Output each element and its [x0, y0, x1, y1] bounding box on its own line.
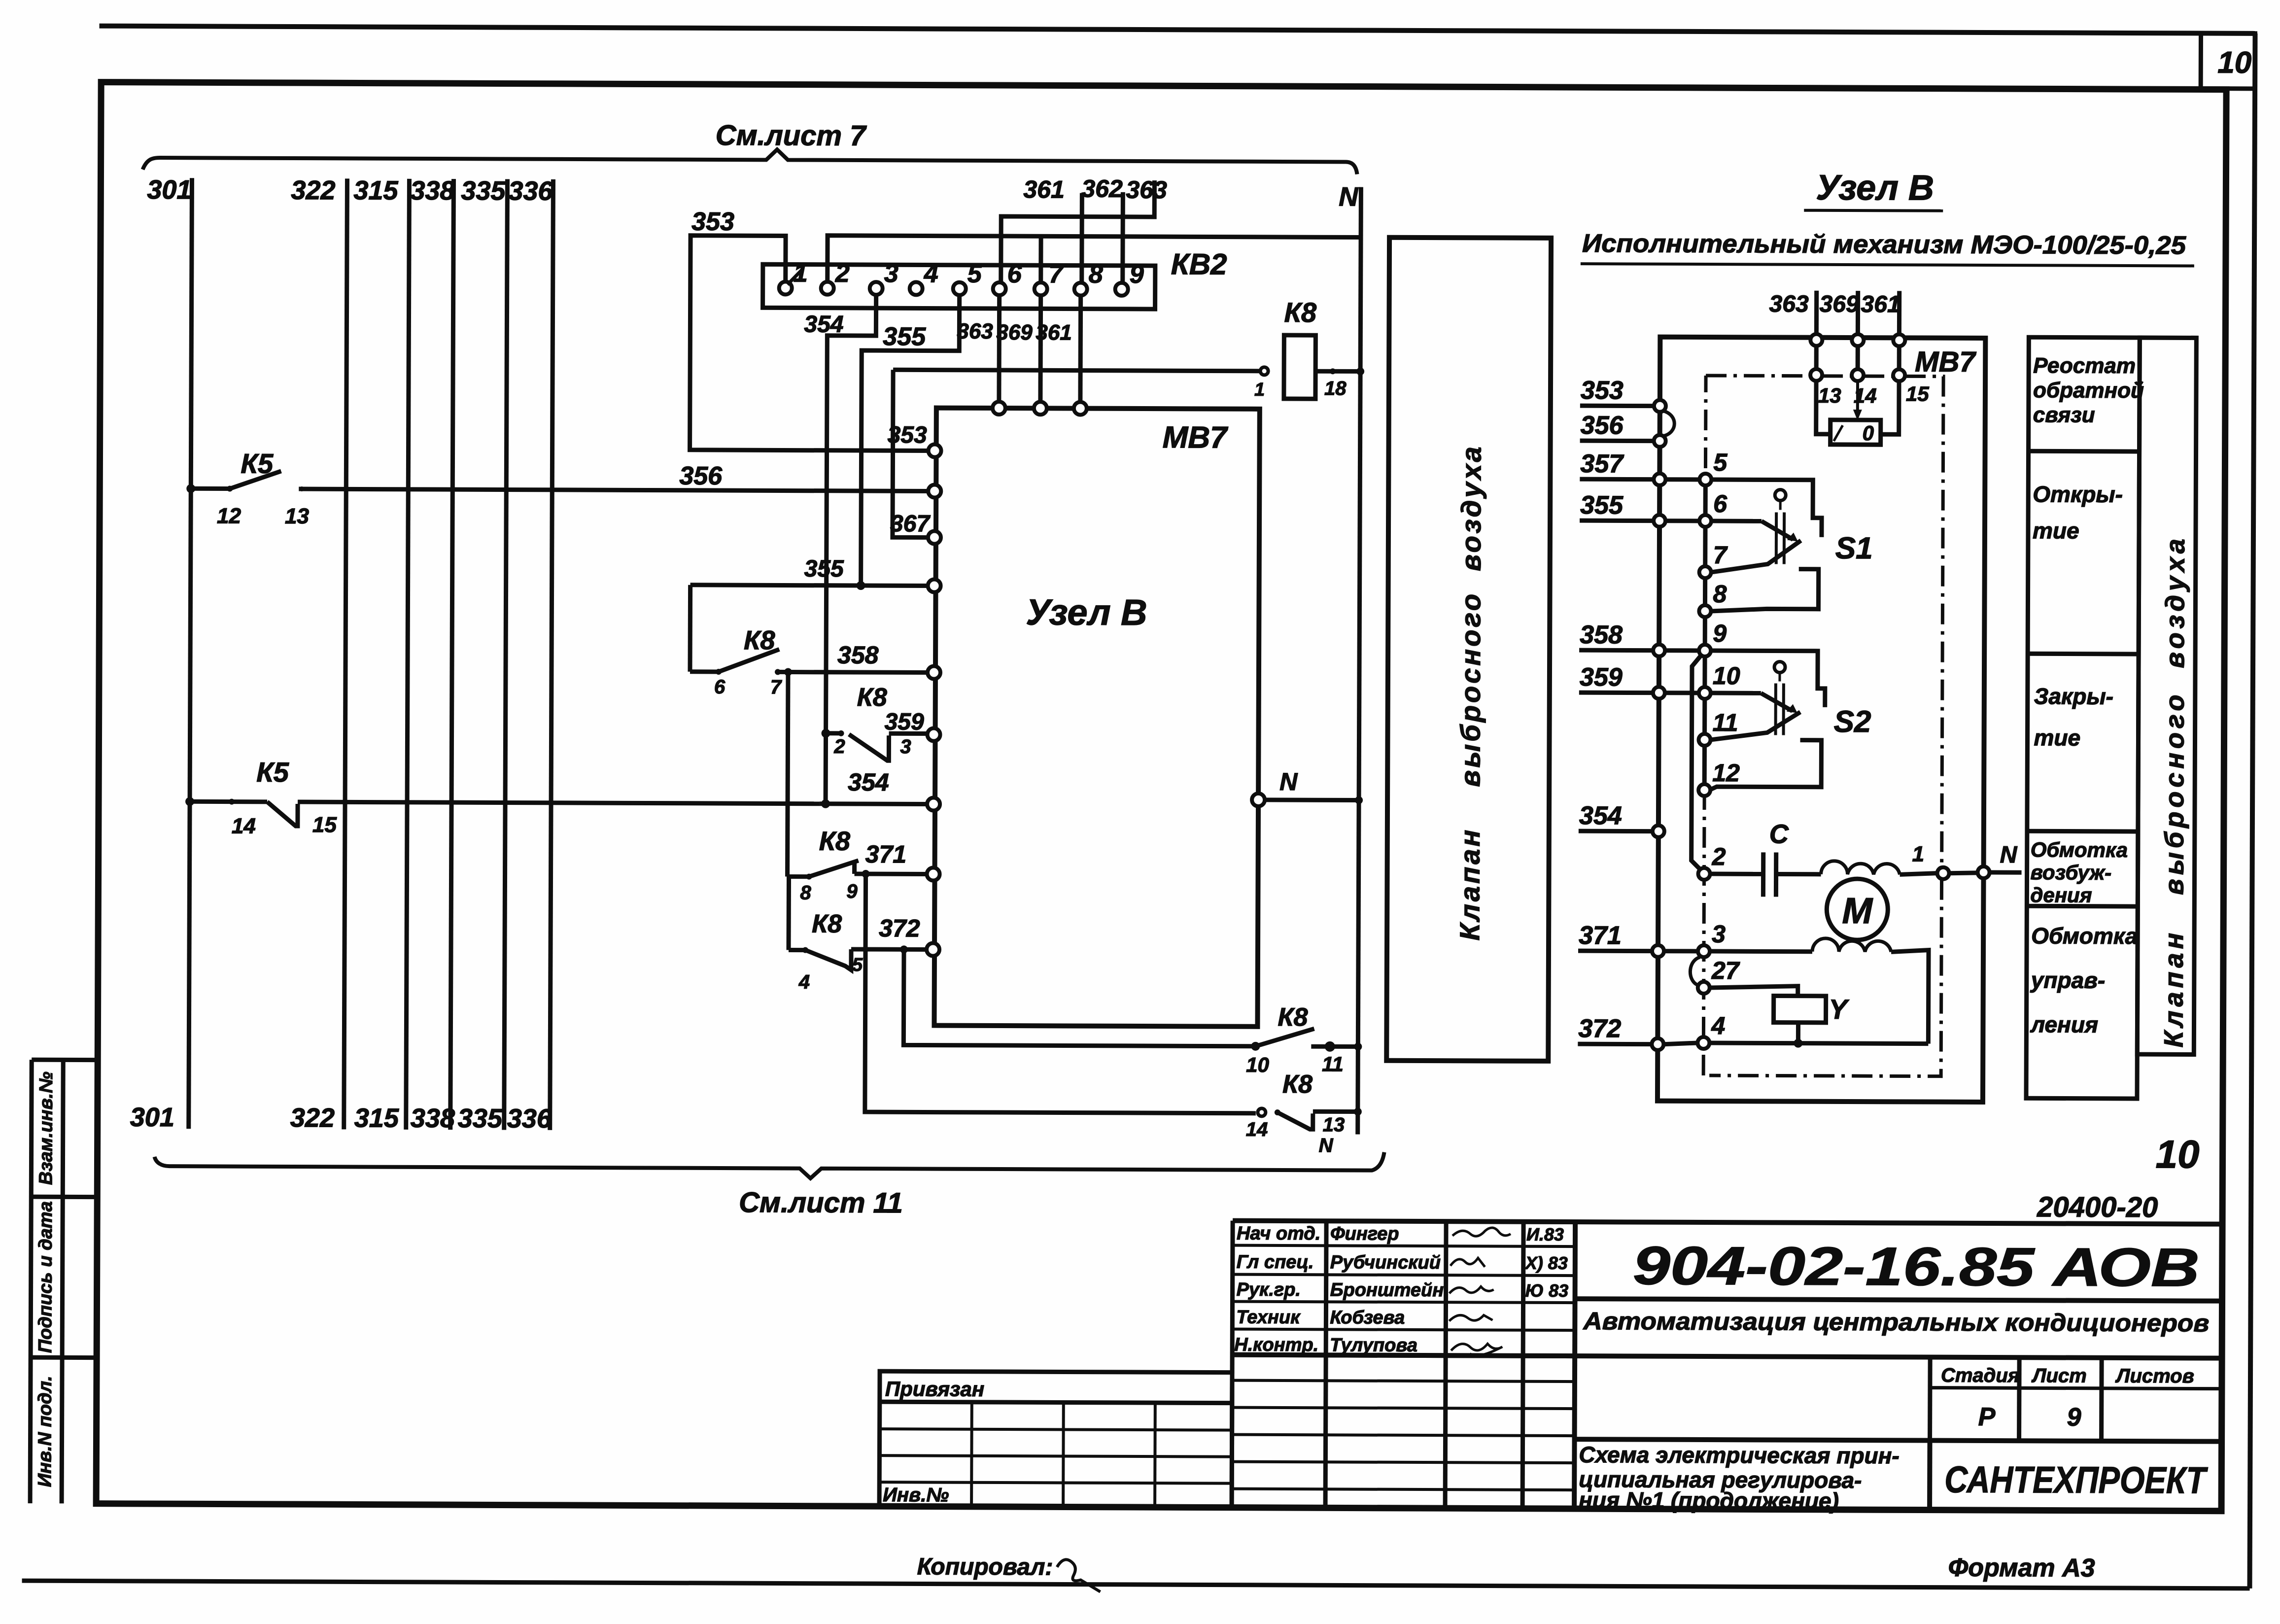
detail wire 361 top — [1897, 291, 1901, 334]
svg-text:12: 12 — [217, 504, 242, 528]
detail wire 363 top — [1814, 291, 1819, 334]
motor M — [1827, 879, 1888, 940]
svg-text:904-02-16.85 АОВ: 904-02-16.85 АОВ — [1633, 1235, 2200, 1298]
svg-text:315: 315 — [354, 1103, 399, 1133]
svg-text:336: 336 — [507, 1104, 552, 1134]
wire 354 from KB2-3 — [826, 295, 876, 804]
svg-text:363: 363 — [957, 319, 993, 344]
KB2 terminal 4 — [910, 282, 923, 295]
svg-text:363: 363 — [1769, 291, 1809, 317]
svg-text:управ-: управ- — [2030, 967, 2106, 993]
svg-text:315: 315 — [353, 175, 398, 205]
inner terminals 13 14 15 — [1810, 369, 1822, 381]
svg-text:358: 358 — [837, 641, 879, 669]
wire 372 branch to K8 10 — [903, 949, 1253, 1046]
svg-text:15: 15 — [1906, 382, 1930, 405]
svg-text:Обмотка: Обмотка — [2031, 923, 2138, 949]
svg-text:10: 10 — [2217, 46, 2251, 80]
bus wire 315 — [406, 179, 410, 1130]
svg-text:7: 7 — [1049, 260, 1064, 288]
svg-text:Инв.№: Инв.№ — [883, 1484, 949, 1506]
svg-text:363: 363 — [1126, 176, 1167, 204]
svg-text:САНТЕХПРОЕКТ: САНТЕХПРОЕКТ — [1944, 1459, 2208, 1502]
KB2 terminal 5 — [953, 282, 966, 295]
svg-text:371: 371 — [1579, 921, 1622, 950]
feedback rheostat — [1856, 381, 1859, 412]
svg-text:Рук.гр.: Рук.гр. — [1237, 1279, 1301, 1300]
svg-text:7: 7 — [770, 676, 782, 698]
svg-text:335: 335 — [458, 1104, 503, 1133]
svg-text:Взам.инв.№: Взам.инв.№ — [35, 1071, 57, 1185]
svg-text:10: 10 — [2155, 1132, 2199, 1176]
relay contact K5 14-15 — [185, 797, 194, 806]
wire 355 from KB2-5 — [861, 295, 960, 586]
svg-text:Подпись и дата: Подпись и дата — [35, 1201, 56, 1353]
svg-text:371: 371 — [865, 840, 907, 868]
border outer right — [2250, 34, 2255, 1589]
relay contact K8 4-5 — [789, 948, 805, 952]
svg-text:N: N — [1279, 768, 1298, 795]
svg-text:355: 355 — [804, 556, 845, 582]
svg-text:Копировал:: Копировал: — [917, 1554, 1053, 1580]
svg-text:354: 354 — [1579, 801, 1622, 830]
svg-text:6: 6 — [1007, 260, 1022, 288]
detail terminal 8 — [1699, 605, 1711, 617]
bus wire 336 — [550, 179, 553, 1130]
svg-text:301: 301 — [130, 1103, 174, 1132]
wire 362 — [1120, 192, 1125, 283]
svg-text:S1: S1 — [1835, 531, 1873, 565]
svg-text:27: 27 — [1711, 957, 1740, 984]
svg-text:354: 354 — [848, 768, 889, 796]
svg-text:Гл спец.: Гл спец. — [1237, 1252, 1314, 1273]
MB7 left terminals — [929, 444, 941, 457]
wire 9 to motor common — [1692, 656, 1701, 869]
detail stub 353 — [1580, 404, 1654, 409]
detail device box MB7 — [1658, 337, 1985, 1102]
svg-text:Стадия: Стадия — [1941, 1365, 2020, 1387]
duct box klapan right — [2137, 338, 2196, 1054]
detail terminal 6 — [1699, 515, 1711, 527]
svg-text:9: 9 — [2067, 1403, 2081, 1432]
svg-text:9: 9 — [846, 881, 858, 902]
KB2 terminal 6 — [993, 282, 1006, 295]
brace see sheet 7 — [143, 147, 1357, 174]
svg-text:Клапан выбросного воздуха: Клапан выбросного воздуха — [2159, 535, 2190, 1047]
svg-text:336: 336 — [508, 176, 553, 206]
svg-text:372: 372 — [1578, 1014, 1621, 1043]
svg-text:6: 6 — [1713, 490, 1727, 518]
svg-text:354: 354 — [804, 311, 843, 338]
svg-text:Y: Y — [1829, 994, 1850, 1025]
svg-text:369: 369 — [996, 320, 1033, 345]
svg-text:1: 1 — [1912, 842, 1925, 866]
svg-text:возбуж-: возбуж- — [2031, 861, 2112, 884]
detail stub 354 — [1579, 829, 1653, 834]
personnel table — [1233, 1245, 1575, 1246]
svg-text:356: 356 — [1581, 411, 1624, 440]
detail stub 358 — [1579, 648, 1653, 653]
relay contact K5 12-13 — [186, 484, 195, 493]
svg-text:5: 5 — [852, 955, 863, 975]
detail terminal 11 — [1698, 734, 1710, 746]
relay contact K8 14-13 to N — [1258, 1108, 1266, 1116]
svg-text:11: 11 — [1713, 709, 1738, 736]
svg-text:5: 5 — [1713, 449, 1727, 476]
jumper 353-356 — [1663, 411, 1675, 436]
svg-text:тие: тие — [2033, 518, 2079, 543]
svg-text:связи: связи — [2033, 403, 2095, 427]
svg-text:К8: К8 — [1278, 1003, 1308, 1032]
svg-text:15: 15 — [312, 813, 337, 837]
svg-text:N: N — [1319, 1135, 1334, 1156]
detail terminal 12 — [1698, 784, 1710, 796]
terminal strip KB2 — [763, 264, 1155, 309]
svg-text:357: 357 — [1580, 449, 1624, 478]
device box MB7 (Uzel B) — [934, 408, 1259, 1027]
svg-text:3: 3 — [1712, 920, 1726, 948]
svg-text:4: 4 — [1711, 1012, 1725, 1039]
detail wire 369 top — [1856, 291, 1860, 334]
N bus vertical — [1358, 187, 1361, 1135]
chain wire to K8 4-5 — [787, 877, 792, 950]
svg-text:тие: тие — [2034, 725, 2080, 750]
stadia list listov header — [1928, 1357, 1933, 1441]
svg-text:361: 361 — [1036, 320, 1072, 345]
KB2 terminal 8 — [1074, 283, 1087, 296]
svg-text:С: С — [1769, 819, 1789, 849]
relay contact K8 6-7 — [688, 585, 692, 672]
svg-text:Реостат: Реостат — [2033, 353, 2136, 378]
svg-text:1: 1 — [1254, 380, 1265, 400]
svg-text:18: 18 — [1324, 378, 1347, 399]
KB2 terminal 7 — [1035, 282, 1047, 295]
svg-text:Ю 83: Ю 83 — [1525, 1280, 1569, 1301]
svg-text:Фингер: Фингер — [1330, 1223, 1399, 1244]
svg-text:Исполнительный механизм МЭО-10: Исполнительный механизм МЭО-100/25-0,25 — [1582, 229, 2186, 260]
jumper 3-27 — [1690, 957, 1700, 986]
svg-text:К8: К8 — [1284, 297, 1317, 328]
privyazan table — [879, 1371, 1232, 1507]
MB7 N terminal — [1252, 794, 1265, 806]
svg-text:4: 4 — [798, 971, 810, 993]
brace see sheet 11 — [154, 1148, 1384, 1180]
svg-text:МВ7: МВ7 — [1915, 346, 1976, 378]
svg-text:S2: S2 — [1834, 705, 1871, 739]
svg-text:обратной: обратной — [2033, 378, 2144, 403]
svg-text:Инв.N подл.: Инв.N подл. — [35, 1376, 56, 1487]
svg-text:2: 2 — [1712, 843, 1726, 870]
svg-text:353: 353 — [1581, 376, 1624, 405]
svg-text:335: 335 — [461, 176, 506, 206]
node N detail — [1978, 866, 1990, 878]
wire 4 return — [1709, 1043, 1928, 1044]
svg-text:Обмотка: Обмотка — [2031, 838, 2128, 862]
svg-text:8: 8 — [1713, 580, 1727, 608]
svg-text:ления: ления — [2030, 1011, 2098, 1037]
svg-text:6: 6 — [714, 676, 725, 698]
svg-text:9: 9 — [1130, 260, 1144, 289]
svg-text:2: 2 — [835, 259, 850, 288]
svg-text:14: 14 — [232, 814, 256, 838]
svg-text:301: 301 — [147, 175, 191, 205]
detail terminal 3 — [1698, 945, 1710, 957]
svg-text:10: 10 — [1246, 1053, 1269, 1076]
svg-text:10: 10 — [1713, 662, 1740, 690]
KB2 terminal 3 — [870, 282, 883, 295]
svg-text:20400-20: 20400-20 — [2037, 1191, 2158, 1223]
detail terminal 4 — [1697, 1037, 1709, 1049]
svg-text:2: 2 — [833, 736, 845, 758]
detail stub 355 — [1580, 518, 1654, 523]
page number box 10 — [2201, 34, 2255, 89]
limit switch S1 — [1711, 480, 1822, 537]
svg-text:338: 338 — [410, 176, 454, 206]
signatures — [1452, 1228, 1511, 1237]
detail terminal 9 — [1699, 645, 1711, 657]
svg-text:ния №1 (продолжение): ния №1 (продолжение) — [1579, 1487, 1839, 1514]
svg-text:N: N — [2000, 842, 2018, 868]
solenoid Y — [1774, 996, 1826, 1022]
bus wire 301 — [189, 178, 192, 1129]
svg-text:Кобзева: Кобзева — [1330, 1307, 1405, 1328]
border outer bottom — [22, 1581, 2250, 1589]
bus wire 322 — [344, 178, 347, 1129]
svg-text:Откры-: Откры- — [2033, 481, 2123, 507]
svg-text:361: 361 — [1861, 291, 1900, 317]
svg-text:0: 0 — [1863, 421, 1874, 445]
wire 27 to solenoid — [1710, 986, 1798, 996]
wire 363 — [1001, 180, 1155, 283]
svg-text:М: М — [1842, 890, 1873, 931]
svg-text:355: 355 — [1580, 491, 1624, 519]
svg-text:8: 8 — [1089, 260, 1103, 289]
inner terminal bus solid segment — [1704, 474, 1705, 790]
control winding — [1710, 949, 1812, 954]
KB2-1 check mark — [788, 269, 803, 284]
svg-text:Автоматизация центральных конд: Автоматизация центральных кондиционеров — [1582, 1307, 2209, 1337]
svg-text:К8: К8 — [1282, 1070, 1313, 1099]
wire 358 tap — [788, 672, 788, 877]
svg-text:8: 8 — [800, 882, 811, 904]
wire to N bus from KB2-2 — [828, 236, 1361, 284]
svg-text:Техник: Техник — [1236, 1307, 1301, 1328]
wire 361 — [1079, 193, 1084, 283]
links to inner row — [1814, 346, 1819, 369]
svg-text:Закры-: Закры- — [2034, 683, 2113, 709]
wire 354 node line — [820, 801, 928, 806]
svg-text:322: 322 — [291, 175, 335, 205]
detail terminal 2 — [1698, 868, 1710, 880]
wire 371 branch to K8 13 — [865, 874, 1257, 1113]
svg-text:353: 353 — [691, 207, 734, 236]
svg-text:К8: К8 — [812, 910, 842, 938]
detail stub 357 — [1580, 477, 1654, 482]
detail stub 356 — [1580, 439, 1654, 444]
bus wire 335 — [504, 179, 508, 1130]
svg-text:Лист: Лист — [2031, 1365, 2087, 1386]
relay contact K8 8-9 — [788, 874, 809, 879]
actuator boundary dash-dot box — [1706, 374, 1810, 378]
svg-text:356: 356 — [679, 462, 723, 490]
KB2 terminal 2 — [821, 282, 834, 295]
title block top edge — [1233, 1221, 2222, 1224]
svg-text:9: 9 — [1713, 620, 1727, 647]
svg-text:К5: К5 — [256, 757, 289, 788]
relay coil K8 — [893, 370, 1260, 371]
svg-text:372: 372 — [879, 914, 920, 942]
excitation winding — [1776, 872, 1821, 876]
detail terminal 27 — [1698, 982, 1710, 994]
svg-text:11: 11 — [1322, 1052, 1344, 1075]
capacitor C — [1710, 872, 1763, 876]
wire 369 below KB2-7 — [1038, 295, 1043, 402]
detail stub 371 — [1578, 949, 1652, 954]
title block main vertical — [1574, 1222, 1575, 1509]
svg-text:13: 13 — [285, 504, 309, 528]
svg-text:13: 13 — [1818, 384, 1841, 407]
svg-text:Формат А3: Формат А3 — [1948, 1554, 2095, 1583]
svg-text:X) 83: X) 83 — [1524, 1253, 1568, 1273]
svg-text:Рубчинский: Рубчинский — [1330, 1252, 1441, 1273]
svg-text:И.83: И.83 — [1526, 1224, 1564, 1244]
svg-text:3: 3 — [884, 259, 898, 288]
svg-text:14: 14 — [1246, 1119, 1268, 1140]
svg-text:Привязан: Привязан — [885, 1377, 984, 1401]
svg-text:К8: К8 — [857, 683, 887, 712]
svg-text:КВ2: КВ2 — [1171, 247, 1227, 280]
KB2 terminal 9 — [1115, 283, 1128, 296]
svg-text:N: N — [1339, 182, 1358, 211]
svg-text:К5: К5 — [241, 448, 274, 479]
svg-text:338: 338 — [411, 1104, 455, 1133]
detail stub 359 — [1579, 691, 1653, 695]
relay contact K8 2-3 — [822, 729, 830, 738]
border outer top — [100, 26, 2255, 34]
svg-text:Узел В: Узел В — [1816, 168, 1934, 208]
svg-text:дения: дения — [2030, 883, 2092, 906]
wire 355 node line — [691, 585, 929, 586]
detail terminal 5 — [1699, 474, 1711, 485]
wire 353 from KB2-1 — [690, 236, 930, 451]
svg-text:369: 369 — [1820, 291, 1860, 317]
KB2-7 stub to N wire — [1038, 236, 1043, 282]
wire 363 below KB2-6 — [997, 295, 1002, 402]
svg-text:Узел В: Узел В — [1026, 591, 1147, 633]
bus wire 338 — [450, 179, 454, 1130]
MB7 top terminals — [993, 402, 1005, 415]
svg-text:Р: Р — [1978, 1403, 1996, 1431]
wire 367 — [893, 370, 929, 537]
svg-text:Листов: Листов — [2115, 1365, 2194, 1387]
svg-text:См.лист 11: См.лист 11 — [739, 1186, 903, 1219]
svg-text:Клапан выбросного воздуха: Клапан выбросного воздуха — [1454, 444, 1487, 940]
svg-text:322: 322 — [290, 1103, 335, 1133]
stub wires into bus — [1665, 477, 1699, 482]
svg-text:13: 13 — [1323, 1114, 1345, 1136]
svg-text:См.лист 7: См.лист 7 — [716, 119, 867, 152]
svg-text:Схема электрическая прин-: Схема электрическая прин- — [1579, 1442, 1899, 1468]
svg-text:Бронштейн: Бронштейн — [1330, 1279, 1444, 1301]
limit switch S2 — [1711, 651, 1825, 707]
svg-text:359: 359 — [885, 709, 925, 735]
label column box — [2026, 337, 2140, 1099]
left margin boxes — [32, 1058, 98, 1062]
KB2 terminal 1 — [779, 281, 792, 294]
svg-text:367: 367 — [890, 511, 931, 537]
svg-text:К8: К8 — [819, 827, 850, 856]
svg-text:355: 355 — [883, 322, 926, 351]
relay contact K8 10-11 — [1251, 1042, 1260, 1051]
svg-text:4: 4 — [924, 259, 938, 288]
svg-text:362: 362 — [1081, 175, 1123, 203]
duct box klapan vybrosnogo vozdukha left — [1386, 238, 1551, 1061]
svg-text:К8: К8 — [744, 625, 775, 655]
svg-text:Нач отд.: Нач отд. — [1237, 1223, 1321, 1244]
svg-text:МВ7: МВ7 — [1163, 420, 1229, 454]
detail top terminals 363/369/361 — [1810, 334, 1822, 346]
svg-text:358: 358 — [1580, 621, 1623, 649]
detail stub 372 — [1578, 1042, 1652, 1047]
svg-text:12: 12 — [1712, 759, 1740, 787]
svg-text:5: 5 — [967, 260, 982, 288]
detail terminal 7 — [1699, 566, 1711, 578]
svg-text:7: 7 — [1713, 541, 1728, 569]
wire 361 below KB2-8 — [1078, 296, 1083, 403]
node 1 — [1937, 867, 1949, 879]
svg-text:359: 359 — [1580, 663, 1623, 691]
detail terminal 10 — [1699, 687, 1711, 699]
svg-text:3: 3 — [900, 736, 911, 758]
svg-text:361: 361 — [1023, 175, 1065, 203]
